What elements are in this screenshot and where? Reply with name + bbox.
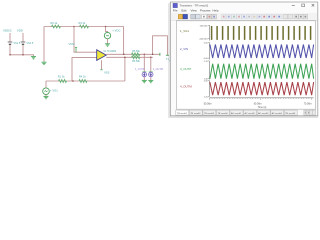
x axis bbox=[209, 98, 313, 100]
terminal jumper end bbox=[166, 54, 169, 56]
wire feedback bottom vertical bbox=[124, 57, 126, 81]
svg-text:-500.00m: -500.00m bbox=[199, 39, 208, 41]
wire output OUTM bbox=[106, 56, 153, 58]
svg-text:TR result3: TR result3 bbox=[204, 112, 215, 115]
wire VG1 to ground bbox=[45, 95, 47, 97]
scope waveform 3_OUTP bbox=[210, 64, 314, 79]
window shadow bbox=[168, 3, 318, 118]
scope trace 3_OUTP axis bbox=[204, 61, 210, 80]
svg-text:TR result5: TR result5 bbox=[285, 112, 296, 115]
svg-text:VSS: VSS bbox=[104, 70, 110, 74]
wire output OUTP bbox=[106, 53, 160, 55]
voltage source VOCM bbox=[104, 28, 120, 38]
wire VOCM to ground bbox=[107, 39, 109, 44]
resistor R1 bbox=[58, 74, 67, 82]
svg-text:+ VG1: + VG1 bbox=[50, 88, 58, 92]
svg-text:AC result2: AC result2 bbox=[245, 112, 256, 115]
terminal OUTP end bbox=[159, 53, 161, 56]
svg-text:R6 50k: R6 50k bbox=[132, 60, 140, 63]
svg-text:3_OUTP: 3_OUTP bbox=[180, 67, 191, 71]
svg-text:Help: Help bbox=[213, 8, 219, 12]
svg-text:TR result1: TR result1 bbox=[177, 112, 188, 115]
svg-text:500.00m: 500.00m bbox=[200, 26, 208, 28]
ground supply bbox=[31, 57, 36, 59]
op-amp U1 TLV9062 bbox=[97, 50, 117, 61]
wire feedback top vertical bbox=[123, 27, 125, 55]
wire lower input branch bbox=[72, 58, 97, 81]
svg-text:AC result4: AC result4 bbox=[272, 112, 283, 115]
svg-text:Edit: Edit bbox=[182, 8, 187, 12]
svg-text:AC result1: AC result1 bbox=[231, 112, 242, 115]
svg-text:70.00m: 70.00m bbox=[304, 102, 312, 105]
svg-text:VS1 5: VS1 5 bbox=[14, 42, 21, 45]
junction OUTP probe bbox=[144, 54, 146, 56]
wire top feedback rail bbox=[44, 26, 124, 28]
resistor R5 bbox=[132, 50, 141, 56]
svg-text:2_VIN: 2_VIN bbox=[180, 47, 188, 51]
net tee VCM bbox=[69, 42, 78, 52]
junction feedback / OUTP bbox=[123, 54, 125, 56]
battery VS2 bbox=[21, 33, 34, 55]
svg-text:4_OUTM: 4_OUTM bbox=[180, 84, 192, 88]
ground VOCM bbox=[105, 44, 110, 46]
wire OUTM probe stub bbox=[150, 57, 152, 72]
toolbar bbox=[171, 13, 318, 20]
scope trace 2_VIN axis bbox=[203, 43, 209, 61]
scope waveform 2_VIN bbox=[210, 45, 314, 59]
svg-text:VS2 5: VS2 5 bbox=[27, 42, 34, 45]
svg-text:+ VOC: + VOC bbox=[112, 28, 120, 32]
svg-text:60.00m: 60.00m bbox=[254, 102, 262, 105]
svg-text:1_VG1: 1_VG1 bbox=[180, 29, 189, 33]
scope trace 4_OUTM axis bbox=[204, 81, 210, 99]
svg-text:R4 1k: R4 1k bbox=[79, 74, 86, 78]
svg-text:R1 1k: R1 1k bbox=[58, 74, 65, 78]
svg-text:TR result2: TR result2 bbox=[190, 112, 201, 115]
junction OUTM probe bbox=[150, 57, 152, 59]
junction jumper / OUTP bbox=[152, 54, 154, 56]
resistor R4 bbox=[79, 74, 87, 82]
wire OUTM probe ground stub bbox=[150, 77, 152, 80]
minimize button bbox=[292, 5, 295, 7]
junction top rail / VOCM branch bbox=[105, 26, 107, 28]
svg-text:VCM: VCM bbox=[69, 42, 76, 46]
wire bottom input rail bbox=[46, 80, 125, 82]
ground VG1 bbox=[44, 96, 49, 98]
svg-text:R2 1k: R2 1k bbox=[51, 21, 58, 25]
junction battery VS2 bottom bbox=[22, 54, 24, 56]
svg-text:1_OUTP: 1_OUTP bbox=[135, 68, 145, 71]
wire VOCM stub bbox=[106, 27, 108, 33]
voltage generator VG1 bbox=[43, 88, 58, 95]
wire crossover jumper bbox=[153, 36, 168, 55]
svg-text:VDD: VDD bbox=[17, 29, 23, 33]
wire battery bottoms to ground bbox=[10, 55, 34, 57]
svg-text:File: File bbox=[173, 8, 178, 12]
plot panel bbox=[176, 21, 315, 109]
title bar icon bbox=[173, 3, 177, 7]
svg-text:VDD/2: VDD/2 bbox=[3, 29, 12, 33]
svg-text:U1 TLV9062: U1 TLV9062 bbox=[104, 51, 117, 53]
wire op-amp VSS stub bbox=[101, 60, 103, 70]
wire OUTP probe stub bbox=[143, 54, 145, 72]
battery VS1 bbox=[8, 33, 21, 55]
wire VG1 stub bbox=[45, 81, 47, 88]
resistor R6 bbox=[132, 56, 141, 63]
restore button bbox=[302, 4, 305, 7]
toolbar icons bbox=[178, 14, 307, 19]
ground left feedback bbox=[42, 62, 47, 64]
window frame bbox=[170, 2, 317, 116]
svg-text:50.00m: 50.00m bbox=[204, 102, 212, 105]
junction feedback / OUTM bbox=[124, 57, 126, 59]
ground OUTM probe bbox=[148, 80, 153, 82]
scope waveform 4_OUTM bbox=[210, 82, 314, 95]
tab scroll buttons bbox=[304, 110, 316, 115]
svg-text:View: View bbox=[191, 8, 198, 12]
svg-text:R3 1k: R3 1k bbox=[79, 21, 86, 25]
resistor R2 bbox=[51, 21, 61, 28]
scope trace 1_VG1 axis bbox=[199, 25, 209, 41]
svg-text:AC result3: AC result3 bbox=[258, 112, 269, 115]
voltage pin OUTP bbox=[135, 68, 147, 77]
junction bottom rail bbox=[72, 80, 74, 82]
svg-text:R5 50k: R5 50k bbox=[132, 50, 140, 53]
svg-text:Process: Process bbox=[200, 8, 211, 12]
close button bbox=[312, 4, 315, 7]
svg-text:Transient - TR result1: Transient - TR result1 bbox=[180, 4, 209, 8]
ground OUTP probe bbox=[142, 80, 147, 82]
voltage pin OUTM bbox=[149, 68, 163, 77]
junction battery VS1 bottom bbox=[9, 54, 11, 56]
resistor R3 bbox=[79, 21, 89, 28]
scope waveform 1_VG1 bbox=[212, 26, 311, 40]
result tabs bbox=[176, 110, 297, 115]
svg-text:2_OUTM: 2_OUTM bbox=[153, 68, 163, 71]
junction top rail / inverting input branch bbox=[73, 26, 75, 28]
wire feedback to op-amp upper input bbox=[74, 27, 97, 53]
wire left vertical to ground bbox=[43, 27, 45, 62]
wire OUTP probe ground stub bbox=[143, 77, 145, 80]
svg-text:Time (s): Time (s) bbox=[258, 106, 267, 109]
svg-text:TR result4: TR result4 bbox=[217, 112, 228, 115]
svg-text:-5.00: -5.00 bbox=[203, 58, 209, 60]
